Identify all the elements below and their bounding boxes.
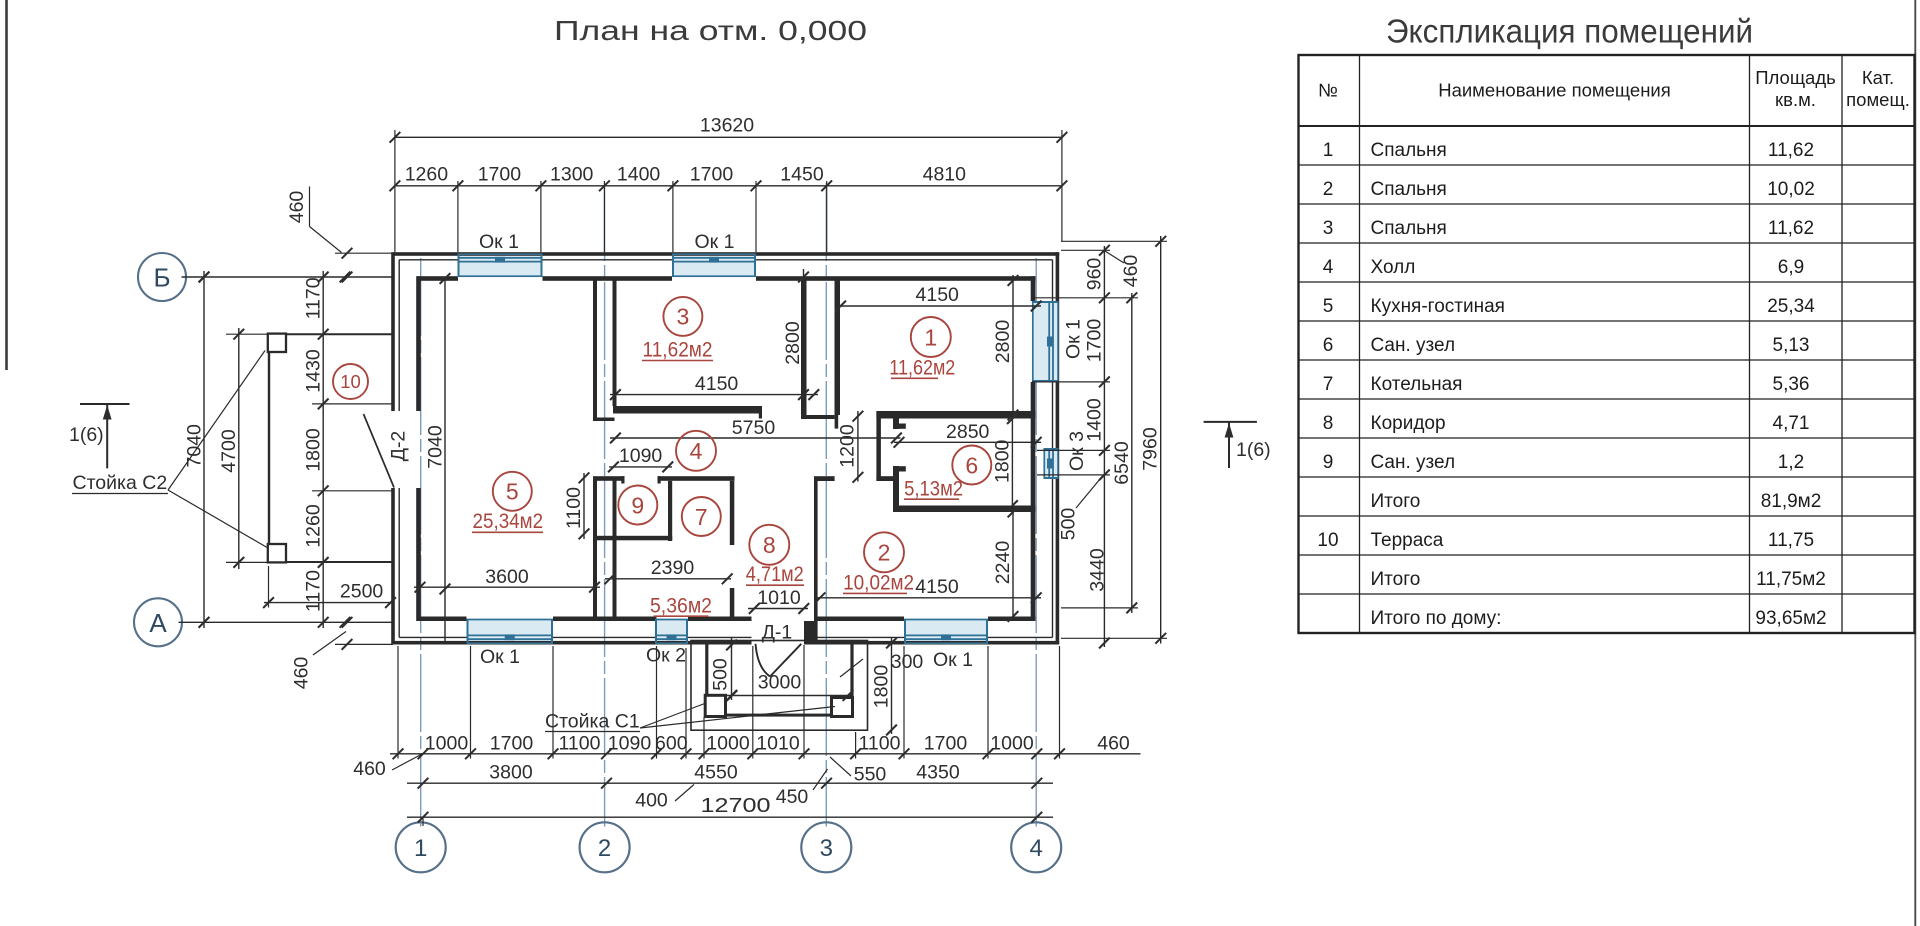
svg-text:1800: 1800 — [303, 428, 325, 472]
svg-text:7040: 7040 — [184, 424, 206, 468]
svg-text:Ок 1: Ок 1 — [1063, 319, 1085, 359]
svg-text:1260: 1260 — [303, 504, 325, 548]
svg-text:Сан. узел: Сан. узел — [1371, 452, 1456, 473]
svg-text:81,9м2: 81,9м2 — [1761, 491, 1822, 512]
svg-text:6,9: 6,9 — [1778, 257, 1804, 278]
svg-text:4150: 4150 — [916, 284, 960, 306]
svg-text:7: 7 — [1323, 374, 1334, 395]
svg-text:№: № — [1318, 80, 1338, 101]
svg-text:300: 300 — [891, 651, 924, 673]
svg-text:500: 500 — [710, 658, 732, 691]
svg-text:1: 1 — [924, 324, 937, 350]
svg-text:6: 6 — [1323, 335, 1334, 356]
svg-text:Б: Б — [153, 263, 170, 293]
svg-text:8: 8 — [1323, 413, 1334, 434]
svg-text:1(6): 1(6) — [69, 424, 104, 446]
svg-text:11,62м2: 11,62м2 — [889, 357, 955, 380]
svg-text:1260: 1260 — [405, 164, 449, 186]
svg-text:10,02: 10,02 — [1767, 179, 1815, 200]
svg-text:1090: 1090 — [608, 732, 652, 754]
svg-text:Холл: Холл — [1371, 257, 1416, 278]
svg-text:2240: 2240 — [992, 541, 1014, 585]
svg-text:3: 3 — [820, 835, 833, 862]
svg-text:8: 8 — [763, 532, 776, 558]
svg-text:3600: 3600 — [485, 566, 529, 588]
svg-text:5,13м2: 5,13м2 — [904, 478, 963, 501]
svg-text:4150: 4150 — [695, 373, 739, 395]
svg-text:10,02м2: 10,02м2 — [843, 572, 914, 595]
svg-text:Ок 2: Ок 2 — [646, 645, 686, 667]
svg-text:А: А — [149, 608, 167, 638]
svg-text:Ок 3: Ок 3 — [1066, 431, 1088, 471]
svg-text:4: 4 — [1030, 835, 1043, 862]
svg-text:1400: 1400 — [617, 164, 661, 186]
svg-text:6540: 6540 — [1111, 441, 1133, 485]
svg-text:960: 960 — [1084, 258, 1106, 291]
svg-text:3: 3 — [677, 304, 690, 330]
svg-text:2800: 2800 — [992, 320, 1014, 364]
svg-text:400: 400 — [635, 790, 668, 812]
svg-text:1170: 1170 — [303, 277, 325, 319]
svg-text:5,13: 5,13 — [1773, 335, 1810, 356]
svg-text:2: 2 — [878, 540, 891, 566]
svg-text:Ок 1: Ок 1 — [933, 649, 973, 671]
svg-text:1800: 1800 — [991, 439, 1013, 483]
svg-text:1430: 1430 — [303, 349, 325, 393]
svg-text:Спальня: Спальня — [1371, 218, 1447, 239]
svg-text:4810: 4810 — [923, 164, 967, 186]
svg-text:Терраса: Терраса — [1371, 530, 1444, 551]
svg-text:10: 10 — [1317, 530, 1338, 551]
svg-text:3440: 3440 — [1087, 548, 1109, 592]
svg-text:1300: 1300 — [550, 164, 594, 186]
svg-text:1700: 1700 — [1084, 319, 1106, 363]
svg-text:Д-2: Д-2 — [388, 431, 410, 462]
svg-text:Итого по дому:: Итого по дому: — [1371, 608, 1502, 629]
svg-text:4,71: 4,71 — [1773, 413, 1810, 434]
svg-text:1100: 1100 — [859, 732, 901, 754]
svg-text:1200: 1200 — [837, 424, 859, 468]
svg-text:1000: 1000 — [425, 732, 469, 754]
svg-text:550: 550 — [854, 764, 887, 786]
svg-text:600: 600 — [655, 732, 688, 754]
svg-text:1(6): 1(6) — [1236, 439, 1271, 461]
svg-text:3: 3 — [1323, 218, 1334, 239]
svg-text:11,75м2: 11,75м2 — [1756, 569, 1826, 590]
svg-text:кв.м.: кв.м. — [1775, 89, 1816, 110]
svg-text:Коридор: Коридор — [1371, 413, 1446, 434]
svg-text:2850: 2850 — [946, 421, 990, 443]
svg-text:2500: 2500 — [340, 581, 384, 603]
svg-text:1000: 1000 — [990, 732, 1034, 754]
svg-text:Площадь: Площадь — [1755, 67, 1836, 88]
svg-text:4: 4 — [690, 438, 703, 464]
svg-text:5: 5 — [1323, 296, 1334, 317]
svg-text:25,34: 25,34 — [1767, 296, 1815, 317]
svg-text:1000: 1000 — [706, 732, 750, 754]
svg-text:Ок 1: Ок 1 — [695, 231, 735, 253]
svg-text:460: 460 — [286, 191, 308, 224]
svg-text:3000: 3000 — [758, 672, 802, 694]
svg-text:11,62: 11,62 — [1768, 218, 1814, 239]
svg-text:450: 450 — [776, 786, 809, 808]
svg-text:4550: 4550 — [694, 762, 738, 784]
svg-text:Д-1: Д-1 — [762, 622, 793, 644]
svg-text:1100: 1100 — [559, 732, 601, 754]
svg-text:460: 460 — [1120, 255, 1142, 288]
svg-text:Экспликация помещений: Экспликация помещений — [1386, 13, 1753, 50]
svg-text:1010: 1010 — [756, 732, 800, 754]
svg-text:460: 460 — [1097, 732, 1130, 754]
svg-text:Наименование помещения: Наименование помещения — [1438, 80, 1671, 101]
svg-text:3800: 3800 — [489, 762, 533, 784]
svg-text:1,2: 1,2 — [1778, 452, 1804, 473]
svg-text:7: 7 — [695, 504, 708, 530]
svg-text:1170: 1170 — [303, 570, 325, 612]
svg-text:Спальня: Спальня — [1371, 179, 1447, 200]
svg-text:Спальня: Спальня — [1371, 140, 1447, 161]
svg-text:4350: 4350 — [916, 762, 960, 784]
svg-text:1: 1 — [1323, 140, 1334, 161]
svg-text:План на отм. 0,000: План на отм. 0,000 — [554, 15, 867, 46]
svg-text:10: 10 — [340, 371, 361, 392]
svg-text:2800: 2800 — [782, 321, 804, 365]
svg-text:Итого: Итого — [1371, 491, 1421, 512]
svg-text:25,34м2: 25,34м2 — [473, 510, 544, 533]
svg-text:Стойка С1: Стойка С1 — [545, 711, 640, 733]
svg-text:1700: 1700 — [924, 732, 968, 754]
svg-text:1700: 1700 — [478, 164, 522, 186]
svg-text:2: 2 — [1323, 179, 1334, 200]
svg-text:500: 500 — [1058, 508, 1080, 541]
svg-text:Кат.: Кат. — [1862, 67, 1894, 88]
svg-text:5: 5 — [506, 479, 519, 505]
svg-text:13620: 13620 — [700, 115, 754, 137]
svg-text:4150: 4150 — [915, 576, 959, 598]
svg-text:1100: 1100 — [563, 487, 585, 529]
svg-text:460: 460 — [353, 758, 386, 780]
svg-text:1010: 1010 — [757, 587, 801, 609]
svg-text:5750: 5750 — [732, 417, 776, 439]
svg-text:11,75: 11,75 — [1768, 530, 1814, 551]
svg-text:1: 1 — [414, 835, 427, 862]
svg-text:9: 9 — [1323, 452, 1334, 473]
svg-text:Сан. узел: Сан. узел — [1371, 335, 1456, 356]
svg-text:7040: 7040 — [425, 425, 447, 469]
svg-text:Котельная: Котельная — [1371, 374, 1463, 395]
svg-text:Итого: Итого — [1371, 569, 1421, 590]
svg-text:4700: 4700 — [218, 429, 240, 473]
svg-text:помещ.: помещ. — [1846, 89, 1910, 110]
svg-text:9: 9 — [631, 492, 644, 518]
svg-text:Стойка С2: Стойка С2 — [73, 472, 168, 494]
svg-text:Кухня-гостиная: Кухня-гостиная — [1371, 296, 1505, 317]
svg-text:12700: 12700 — [701, 794, 771, 817]
svg-text:11,62: 11,62 — [1768, 140, 1814, 161]
svg-text:1800: 1800 — [871, 665, 893, 709]
svg-text:1700: 1700 — [690, 164, 734, 186]
svg-text:4,71м2: 4,71м2 — [746, 563, 804, 586]
svg-text:1450: 1450 — [780, 164, 824, 186]
svg-text:1090: 1090 — [619, 445, 663, 467]
svg-text:1700: 1700 — [490, 732, 534, 754]
svg-text:93,65м2: 93,65м2 — [1755, 608, 1826, 629]
svg-text:7960: 7960 — [1140, 427, 1162, 471]
svg-text:5,36: 5,36 — [1773, 374, 1810, 395]
svg-text:5,36м2: 5,36м2 — [650, 595, 712, 618]
svg-text:2: 2 — [598, 835, 611, 862]
svg-text:460: 460 — [291, 657, 313, 690]
svg-text:Ок 1: Ок 1 — [479, 231, 519, 253]
svg-text:6: 6 — [965, 452, 978, 478]
svg-text:11,62м2: 11,62м2 — [643, 339, 713, 362]
svg-text:2390: 2390 — [651, 557, 695, 579]
svg-text:4: 4 — [1323, 257, 1334, 278]
svg-text:Ок 1: Ок 1 — [480, 646, 520, 668]
